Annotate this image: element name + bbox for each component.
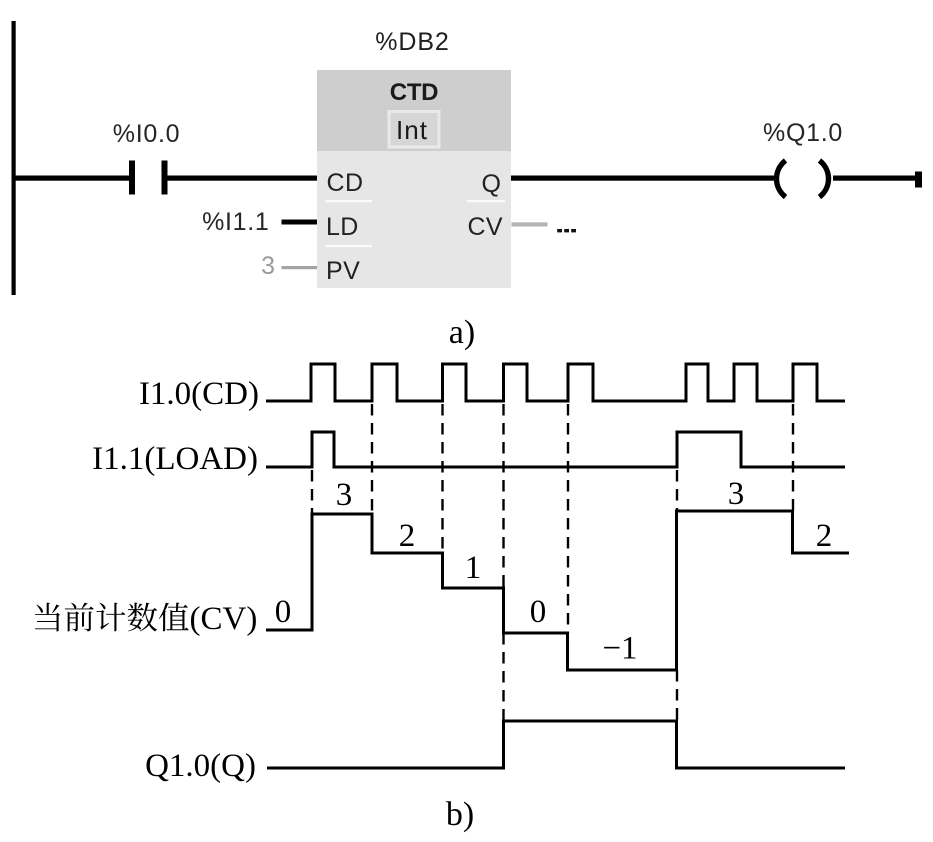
svg-text:(CV): (CV) bbox=[190, 601, 258, 637]
row separator under Q bbox=[467, 200, 505, 202]
waveform Q1.0(Q) bbox=[267, 721, 845, 768]
label %I1.1 bbox=[202, 208, 269, 236]
counter block %DB2 label bbox=[375, 28, 449, 56]
contact %I0.0 label bbox=[113, 120, 180, 148]
CV unassigned dots bbox=[557, 229, 576, 232]
CV value 2 bbox=[399, 518, 416, 554]
pin PV bbox=[326, 257, 360, 285]
svg-text:CV: CV bbox=[467, 213, 503, 241]
svg-text:I1.1(LOAD): I1.1(LOAD) bbox=[92, 441, 258, 477]
wire CV output bbox=[512, 222, 548, 226]
svg-text:0: 0 bbox=[275, 594, 292, 630]
dashed guide at CD pulse 8 rise bbox=[792, 404, 794, 511]
svg-text:CTD: CTD bbox=[390, 79, 438, 106]
CV value 0 initial bbox=[275, 594, 292, 630]
wire coil to right end bbox=[833, 176, 915, 181]
svg-text:b): b) bbox=[446, 796, 474, 833]
dashed guide at CD pulse 2 rise bbox=[371, 404, 373, 514]
svg-text:%Q1.0: %Q1.0 bbox=[763, 119, 843, 147]
svg-text:%I0.0: %I0.0 bbox=[113, 120, 180, 148]
right wire end tick bbox=[915, 172, 922, 188]
signal label I1.1(LOAD) bbox=[92, 441, 258, 477]
signal label 当前计数值(CV) bbox=[35, 601, 257, 637]
row separator under LD bbox=[325, 245, 372, 247]
pin LD bbox=[326, 213, 359, 241]
type field Int bbox=[389, 112, 439, 148]
svg-text:PV: PV bbox=[326, 257, 360, 285]
row separator under CD bbox=[325, 200, 372, 202]
counter block %DB2 CTD body bbox=[317, 70, 511, 288]
contact %I0.0 bbox=[129, 161, 168, 195]
signal label I1.0(CD) bbox=[139, 376, 259, 412]
coil %Q1.0 label bbox=[763, 119, 843, 147]
wire contact to CD input bbox=[168, 176, 318, 181]
svg-text:CD: CD bbox=[327, 169, 364, 197]
value 3 for PV bbox=[261, 252, 275, 280]
svg-text:3: 3 bbox=[336, 477, 353, 513]
svg-text:1: 1 bbox=[465, 550, 482, 586]
pin CV bbox=[467, 213, 503, 241]
svg-text:LD: LD bbox=[326, 213, 359, 241]
wire rail to contact %I0.0 bbox=[12, 176, 130, 181]
svg-text:−1: −1 bbox=[602, 631, 637, 667]
pin Q bbox=[482, 170, 501, 198]
CV value -1 bbox=[602, 631, 637, 667]
dashed guide at CD pulse 5 rise bbox=[567, 404, 569, 633]
waveform I1.0(CD) bbox=[266, 364, 845, 401]
svg-text:I1.0(CD): I1.0(CD) bbox=[139, 376, 259, 412]
svg-text:a): a) bbox=[449, 314, 475, 351]
wire %I1.1 to LD input bbox=[282, 220, 318, 225]
svg-text:%DB2: %DB2 bbox=[375, 28, 449, 56]
svg-text:0: 0 bbox=[530, 594, 547, 630]
pin CD bbox=[327, 169, 364, 197]
signal label Q1.0(Q) bbox=[145, 748, 256, 784]
CV value 0 bbox=[530, 594, 547, 630]
block title CTD bbox=[390, 79, 438, 106]
svg-text:3: 3 bbox=[728, 476, 745, 512]
waveform I1.1(LOAD) bbox=[266, 432, 845, 467]
svg-text:Q1.0(Q): Q1.0(Q) bbox=[145, 748, 256, 784]
waveform CV staircase bbox=[266, 511, 849, 670]
wire 3 to PV input bbox=[282, 266, 318, 269]
svg-text:%I1.1: %I1.1 bbox=[202, 208, 269, 236]
wire Q output to coil bbox=[511, 176, 775, 181]
dashed guide at LOAD pulse 2 rise bbox=[676, 470, 678, 721]
svg-text:2: 2 bbox=[816, 518, 833, 554]
left power rail bbox=[12, 21, 16, 295]
dashed guide at CD pulse 4 rise bbox=[502, 404, 504, 721]
CV value 3 second bbox=[728, 476, 745, 512]
dashed guide at LOAD pulse 1 rise bbox=[311, 470, 313, 514]
CV value 1 bbox=[465, 550, 482, 586]
svg-text:Int: Int bbox=[396, 115, 428, 145]
caption b) bbox=[446, 796, 474, 833]
CV value 3 bbox=[336, 477, 353, 513]
svg-text:Q: Q bbox=[482, 170, 501, 198]
dashed guide at CD pulse 3 rise bbox=[441, 404, 443, 553]
caption a) bbox=[449, 314, 475, 351]
svg-text:2: 2 bbox=[399, 518, 416, 554]
CV value 2 second bbox=[816, 518, 833, 554]
svg-text:3: 3 bbox=[261, 252, 275, 280]
coil %Q1.0 bbox=[777, 161, 829, 198]
